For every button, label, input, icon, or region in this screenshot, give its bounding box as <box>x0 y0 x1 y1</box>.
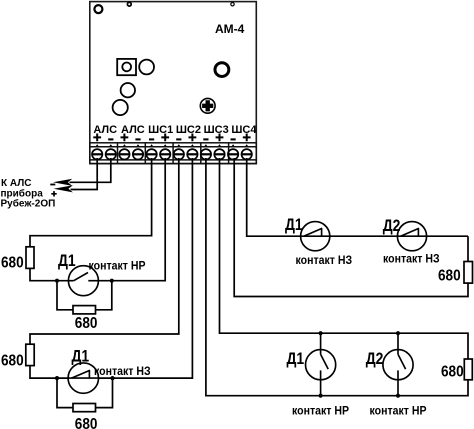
terminal 5 (-) <box>146 139 157 159</box>
wire resistor to detector D1 <box>30 268 69 280</box>
module AM-4 outline <box>90 2 256 164</box>
arrow to panel plus <box>54 185 73 192</box>
button square <box>117 59 136 75</box>
sounder hole <box>215 63 229 77</box>
svg-text:ШС3: ШС3 <box>204 124 229 136</box>
wire right side down through resistor <box>234 158 468 297</box>
resistor 680 ShS3 terminal <box>464 359 472 380</box>
wire parallel branch ShS1 <box>57 281 112 310</box>
svg-text:680: 680 <box>75 416 98 429</box>
wire ShS4 plus: T12 down to top rail <box>247 158 468 236</box>
small hole 1 <box>127 2 131 6</box>
svg-text:Д1: Д1 <box>72 347 90 366</box>
wire ShS1 minus: T5 down, left, to resistor <box>30 158 152 247</box>
detector D1 ShS3 (NO, vertical) <box>306 333 336 396</box>
screw head <box>200 98 215 113</box>
svg-text:контакт НР: контакт НР <box>370 405 427 418</box>
svg-text:контакт НЗ: контакт НЗ <box>94 365 151 378</box>
detector D1 ShS2 (NC contact) <box>68 363 98 393</box>
svg-text:ШС1: ШС1 <box>148 124 173 136</box>
svg-text:680: 680 <box>441 363 464 380</box>
LED hole 3 <box>113 100 128 115</box>
terminal 1 (+) <box>92 134 103 160</box>
LED hole 1 <box>139 60 154 75</box>
svg-text:ШС2: ШС2 <box>176 124 201 136</box>
terminal 2 (-) <box>105 139 116 159</box>
svg-text:Д2: Д2 <box>366 350 384 369</box>
detector D2 ShS3 (NO, vertical) <box>383 333 413 396</box>
wire detector to T8 <box>99 158 193 378</box>
detector D1 ShS1 (NO contact) <box>68 266 98 296</box>
terminal 8 (+) <box>187 134 198 160</box>
wire detector to T6 <box>98 158 165 281</box>
svg-text:Д1: Д1 <box>58 252 76 271</box>
detector D1 ShS4 (NC) <box>301 222 330 251</box>
text K ALS pribora <box>1 178 56 209</box>
svg-text:ШС4: ШС4 <box>231 124 257 136</box>
wire ALS plus (terminal 1 to arrow) <box>71 158 98 190</box>
svg-text:контакт НР: контакт НР <box>89 260 146 273</box>
arrow to panel minus <box>53 179 72 186</box>
svg-text:Д1: Д1 <box>287 350 305 369</box>
wire ALS minus (terminal 2 to arrow) <box>70 158 111 182</box>
button inner circle <box>122 63 131 72</box>
terminal 9 (-) <box>201 139 212 159</box>
minus sign <box>50 184 55 186</box>
svg-text:Д1: Д1 <box>285 216 303 235</box>
svg-text:контакт НР: контакт НР <box>292 405 349 418</box>
node top rail D2 <box>396 331 400 335</box>
svg-text:АЛС: АЛС <box>93 124 117 136</box>
node ShS2 left junction <box>55 376 59 380</box>
svg-text:680: 680 <box>438 267 461 284</box>
wire resistor to detector <box>30 366 68 379</box>
small hole 2 <box>231 2 234 5</box>
LED hole 2 <box>121 83 135 97</box>
terminal 3 (+) <box>119 134 130 160</box>
svg-text:Д2: Д2 <box>383 217 401 236</box>
terminal 12 (+) <box>241 134 252 160</box>
wire ShS3 plus: T10 down to top rail <box>220 158 469 359</box>
terminal 11 (-) <box>228 139 239 159</box>
resistor 680 ShS1 series <box>26 247 34 269</box>
terminal 7 (-) <box>173 139 184 159</box>
wire ShS2 minus: T7 down, left, to resistor <box>30 158 179 344</box>
mounting hole <box>94 5 102 13</box>
node bottom rail D1 <box>319 394 323 398</box>
node ShS2 right junction <box>110 376 114 380</box>
resistor 680 ShS2 series <box>26 344 34 365</box>
node ShS1 left junction <box>55 279 59 283</box>
terminal strip body <box>90 143 256 164</box>
wire parallel branch ShS2 <box>57 378 113 408</box>
wire bottom rail to T9 <box>206 158 468 396</box>
terminal 10 (+) <box>214 134 225 160</box>
svg-text:Рубеж-2ОП: Рубеж-2ОП <box>1 197 56 209</box>
svg-text:АЛС: АЛС <box>121 124 145 136</box>
plus sign <box>51 191 56 196</box>
terminal 6 (+) <box>160 134 171 160</box>
node bottom rail D2 <box>396 394 400 398</box>
node top rail D1 <box>319 331 323 335</box>
svg-text:контакт НЗ: контакт НЗ <box>296 255 353 268</box>
svg-text:680: 680 <box>1 255 24 272</box>
resistor 680 ShS2 parallel <box>73 404 96 412</box>
detector D2 ShS4 (NC) <box>397 222 426 251</box>
resistor 680 ShS1 parallel <box>73 306 96 314</box>
node ShS1 right junction <box>110 279 114 283</box>
terminal 4 (-) <box>133 139 144 159</box>
resistor 680 ShS4 terminal <box>464 262 473 284</box>
svg-text:680: 680 <box>1 352 24 369</box>
svg-text:АМ-4: АМ-4 <box>215 22 245 36</box>
svg-text:680: 680 <box>75 315 98 332</box>
svg-text:контакт НЗ: контакт НЗ <box>383 253 440 266</box>
svg-text:К АЛС: К АЛС <box>1 178 31 189</box>
